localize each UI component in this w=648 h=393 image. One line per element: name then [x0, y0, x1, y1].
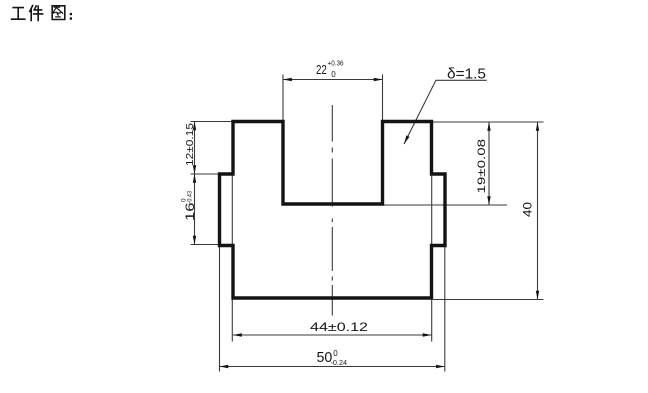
title text 图 [52, 6, 65, 20]
extension tick top-left (12 dim) [191, 121, 233, 123]
svg-text:22: 22 [316, 62, 327, 77]
title colon ： [70, 13, 72, 20]
extension line 50.5 right [444, 247, 446, 372]
arrow 22 left [283, 78, 292, 81]
dimension line 44 [233, 334, 432, 336]
arrow 16 down [193, 236, 196, 245]
arrow 19 up [487, 122, 490, 131]
extension line 19 bottom (from U floor to right) [383, 204, 507, 206]
arrow 44 right [423, 333, 432, 336]
extension line 22 left [282, 75, 284, 121]
svg-text:δ=1.5: δ=1.5 [447, 67, 486, 83]
extension line top right (19/40 shared) [433, 121, 544, 123]
svg-text:0: 0 [331, 70, 336, 79]
dimension line 50.5 [220, 366, 445, 368]
dimension line 40 [537, 122, 539, 300]
arrow 50.5 right [436, 365, 445, 368]
extension line 44 left (through protrusion zone) [231, 174, 233, 342]
leader arrow [404, 135, 410, 144]
svg-text:12±0.15: 12±0.15 [185, 122, 196, 166]
svg-text:0: 0 [333, 349, 338, 358]
extension line 22 right [382, 75, 384, 121]
arrow 40 down [536, 291, 539, 300]
svg-text:40: 40 [521, 202, 535, 217]
svg-text:44±0.12: 44±0.12 [310, 320, 368, 334]
svg-text:-0.24: -0.24 [331, 360, 348, 367]
dimension line 12 and 16 [194, 122, 196, 245]
svg-text:16: 16 [183, 202, 197, 221]
leader line delta [404, 80, 487, 144]
title text 工 [12, 8, 25, 20]
svg-text:+0.36: +0.36 [328, 59, 344, 68]
extension tick left step (12/16 shared) [191, 173, 219, 175]
part outline (stepped U-channel workpiece) [220, 122, 446, 299]
extension line 50.5 left [219, 247, 221, 372]
title text 件 [30, 6, 43, 21]
arrow 16 up [193, 174, 196, 183]
svg-text:-0.43: -0.43 [187, 191, 194, 204]
centerline (vertical dash-dot) [331, 105, 333, 316]
arrow 12 up [193, 122, 196, 131]
dimension line 22 [283, 79, 383, 81]
extension line 44 right (through protrusion zone) [431, 174, 433, 342]
arrow 12 down [193, 165, 196, 174]
arrow 50.5 left [220, 365, 229, 368]
arrow 40 up [536, 122, 539, 131]
extension tick left protrusion bottom (16 dim) [191, 244, 219, 246]
arrow 22 right [374, 78, 383, 81]
svg-text:19±0.08: 19±0.08 [476, 139, 488, 194]
arrow 44 left [233, 333, 242, 336]
dimension line 19 [488, 122, 490, 205]
arrow 19 down [487, 196, 490, 205]
extension line 40 bottom [433, 299, 544, 301]
